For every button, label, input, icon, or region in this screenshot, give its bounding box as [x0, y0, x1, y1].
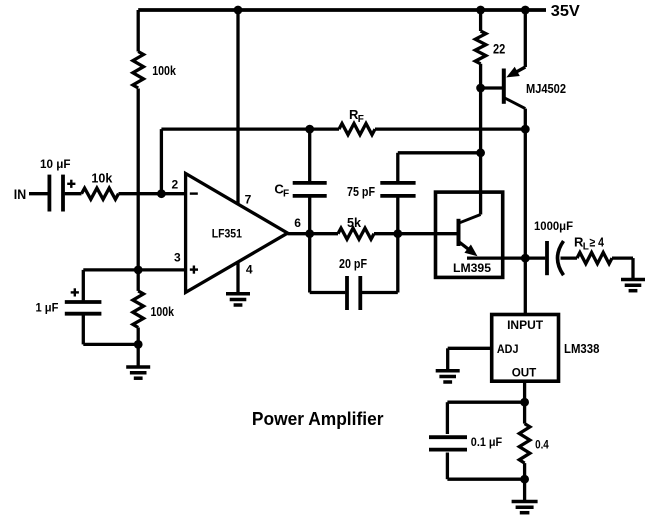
svg-text:3: 3 [174, 251, 181, 265]
svg-text:4: 4 [246, 263, 253, 277]
svg-text:20 pF: 20 pF [339, 257, 367, 271]
svg-text:10k: 10k [91, 171, 112, 185]
svg-text:0.1 μF: 0.1 μF [471, 435, 502, 449]
svg-text:100k: 100k [152, 64, 176, 78]
svg-text:Power Amplifier: Power Amplifier [252, 408, 384, 429]
svg-text:2: 2 [172, 177, 179, 191]
svg-text:10 μF: 10 μF [40, 157, 71, 171]
svg-text:75 pF: 75 pF [347, 185, 375, 199]
svg-text:35V: 35V [551, 3, 580, 20]
svg-text:0.4: 0.4 [535, 438, 549, 452]
svg-text:6: 6 [294, 216, 301, 230]
svg-text:LF351: LF351 [212, 227, 242, 241]
svg-text:ADJ: ADJ [497, 342, 519, 356]
svg-text:22: 22 [493, 42, 505, 57]
svg-text:MJ4502: MJ4502 [526, 82, 566, 96]
svg-text:1 μF: 1 μF [36, 300, 59, 314]
svg-text:LM338: LM338 [564, 342, 599, 356]
svg-text:7: 7 [245, 192, 252, 206]
svg-text:LM395: LM395 [453, 261, 491, 275]
svg-text:OUT: OUT [512, 365, 537, 379]
svg-text:5k: 5k [347, 216, 361, 230]
svg-text:F: F [358, 114, 364, 125]
svg-text:F: F [283, 189, 289, 200]
svg-text:INPUT: INPUT [507, 318, 544, 332]
svg-text:IN: IN [14, 186, 26, 202]
svg-text:≥ 4: ≥ 4 [590, 236, 605, 250]
svg-text:L: L [583, 242, 589, 253]
svg-text:100k: 100k [151, 305, 175, 319]
svg-text:1000μF: 1000μF [534, 219, 573, 233]
